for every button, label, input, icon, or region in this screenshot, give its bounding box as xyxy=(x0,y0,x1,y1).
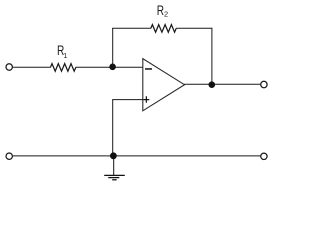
resistor R1 xyxy=(50,64,75,72)
wire feedback top right segment xyxy=(176,27,212,29)
ground xyxy=(104,156,125,180)
op-amp U1 xyxy=(143,59,185,111)
wire plus corner down to ground bus xyxy=(112,100,114,156)
terminal bottom right xyxy=(261,153,267,159)
wire input from terminal to R1 xyxy=(13,66,51,68)
op-amp plus sign xyxy=(143,96,149,102)
resistor R2 xyxy=(151,25,176,33)
terminal bottom left xyxy=(6,153,12,159)
terminal input left xyxy=(6,64,12,70)
op-amp minus sign xyxy=(145,68,152,70)
wire feedback top left segment xyxy=(112,27,151,29)
svg-text:R: R xyxy=(157,2,164,18)
wire feedback down to output node xyxy=(211,28,213,85)
svg-text:2: 2 xyxy=(164,10,168,19)
wire input node up to feedback xyxy=(112,28,114,67)
wire op-amp plus input to left corner xyxy=(112,99,143,101)
svg-text:1: 1 xyxy=(63,51,67,60)
node output junction dot xyxy=(209,81,216,88)
terminal output right xyxy=(261,81,267,87)
node input junction dot xyxy=(109,64,116,71)
node ground junction dot xyxy=(110,152,117,159)
wire ground bus bottom xyxy=(13,155,261,157)
wire output from op-amp to terminal xyxy=(184,83,260,85)
wire R1 to op-amp inverting input xyxy=(76,66,143,68)
